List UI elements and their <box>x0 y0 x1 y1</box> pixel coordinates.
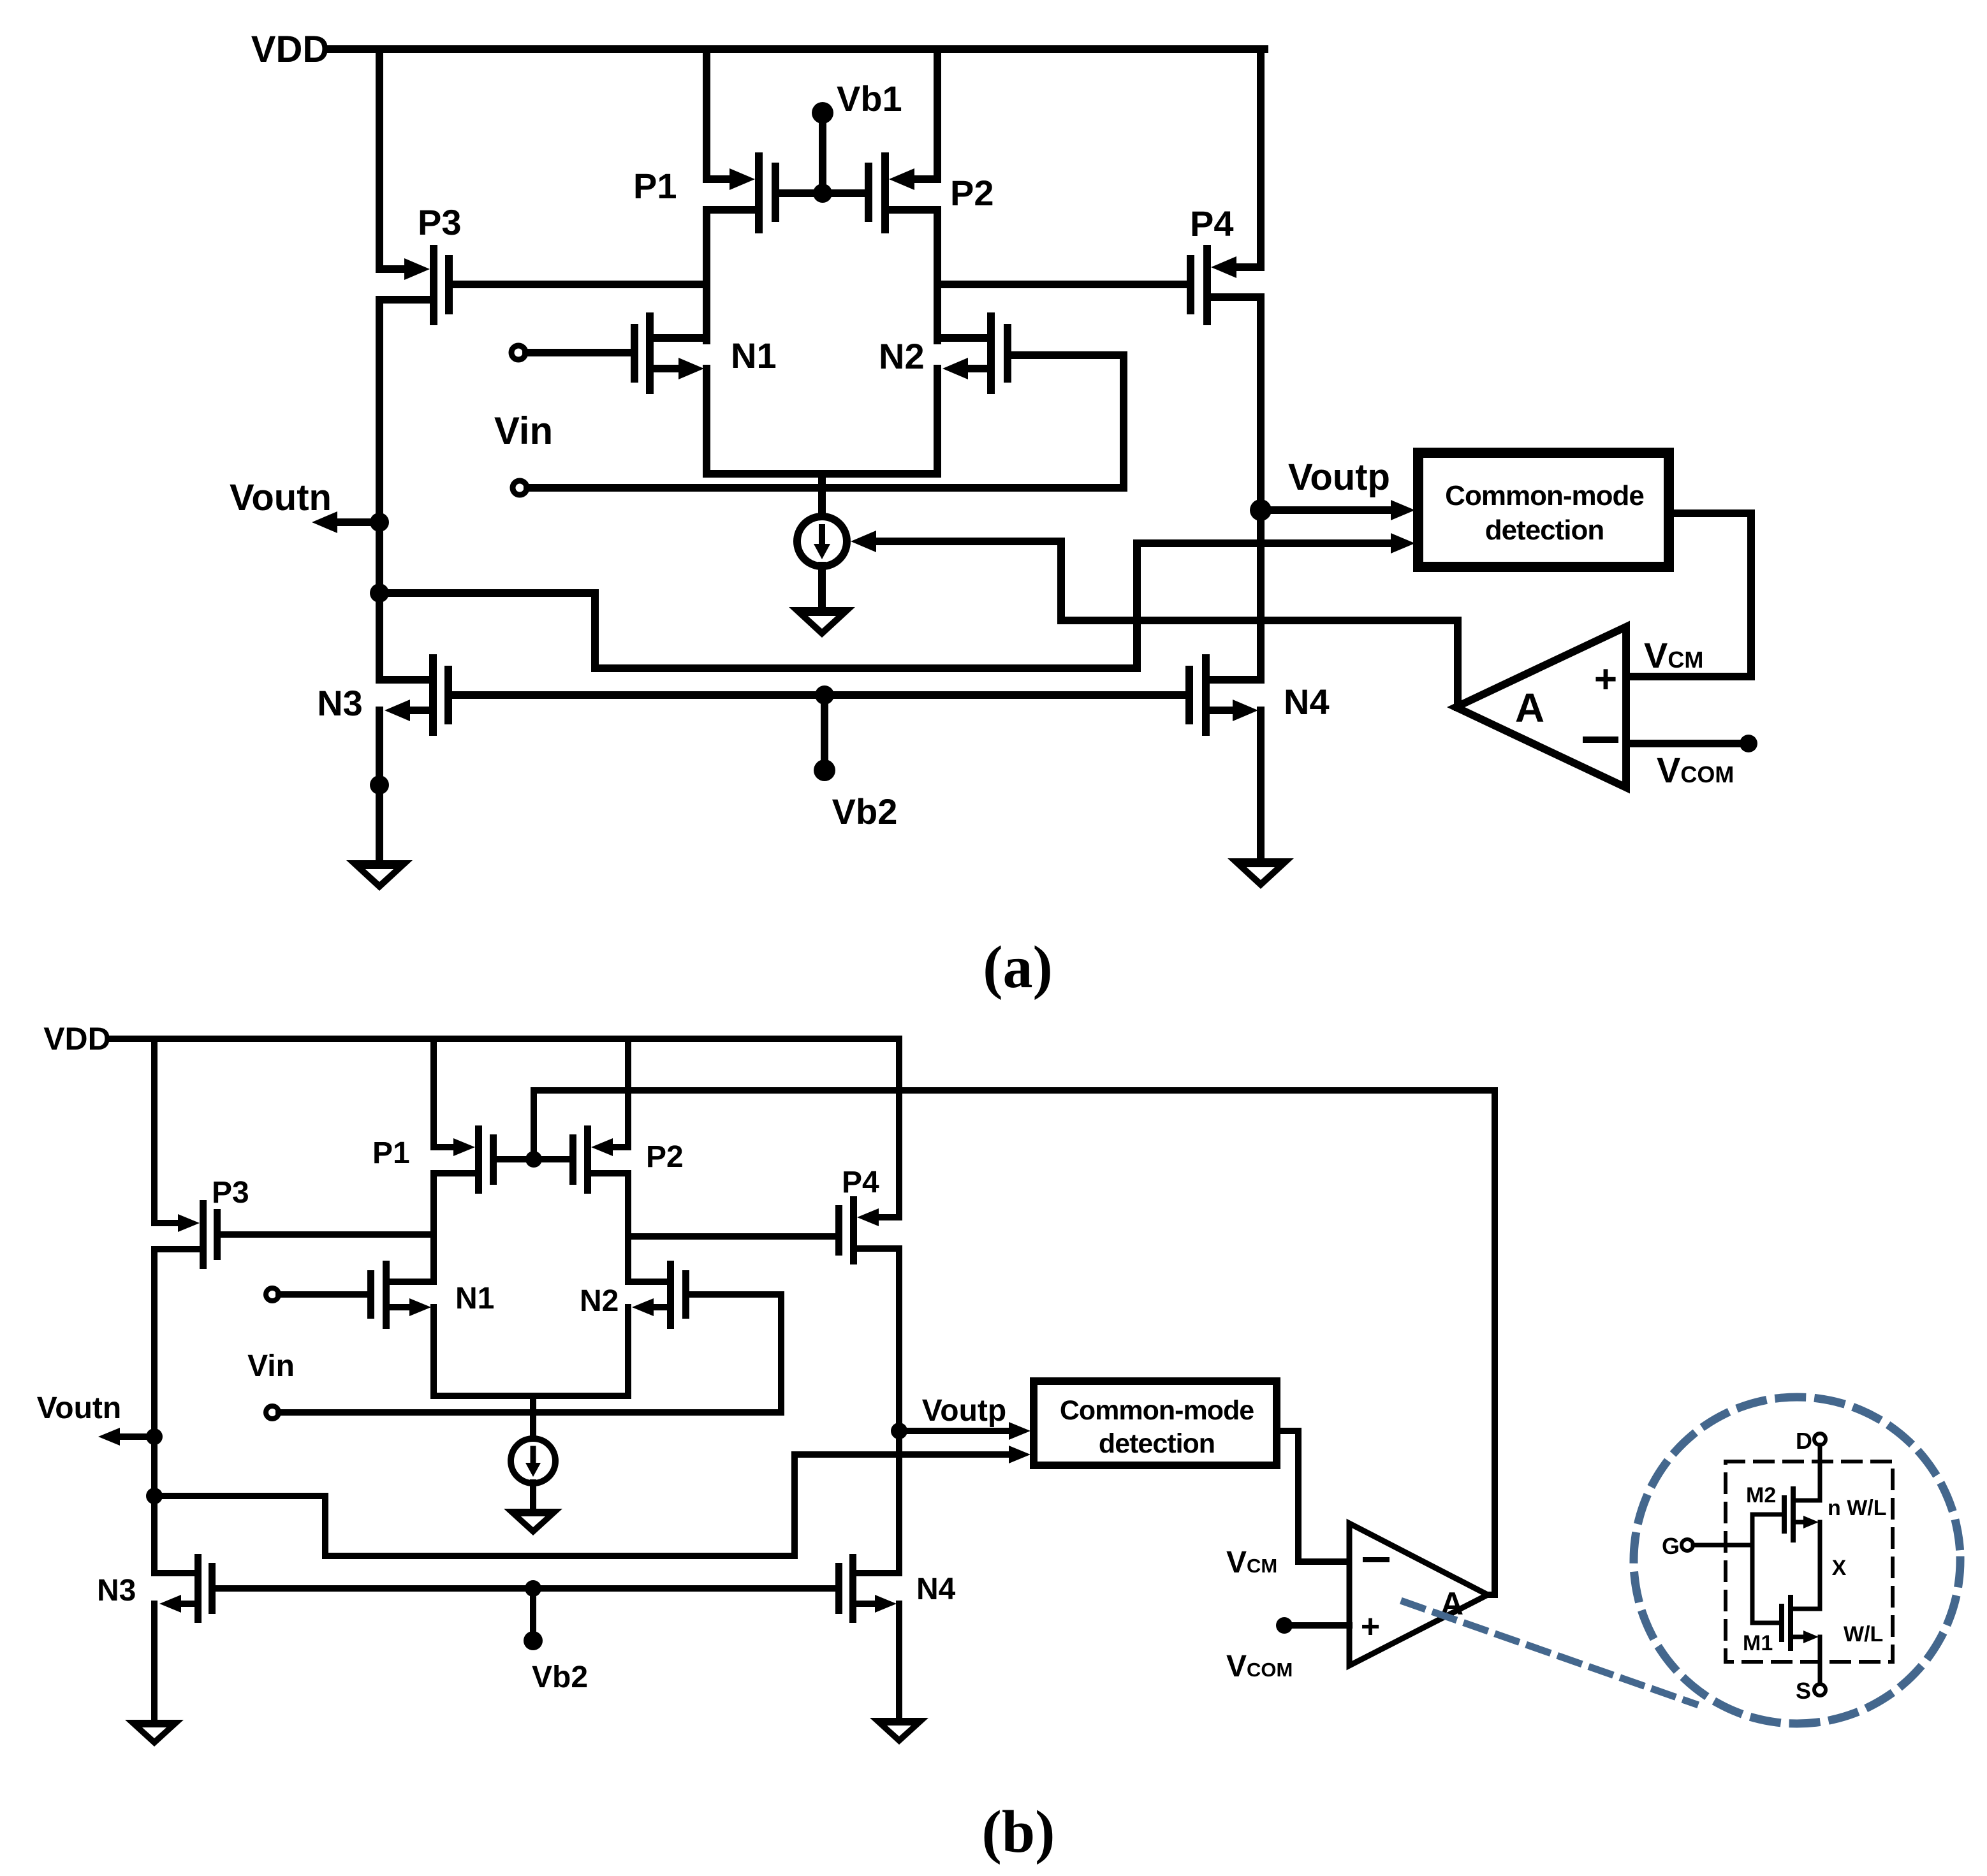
wire VDD drop to P3 source <box>376 49 383 269</box>
wire VDD drop to P2 source <box>934 49 941 179</box>
wire N2 gate lead <box>1011 351 1124 359</box>
transistor P3 (b) <box>154 1200 221 1269</box>
svg-text:Voutn: Voutn <box>37 1391 121 1425</box>
svg-text:VDD: VDD <box>43 1021 111 1057</box>
transistor P1 (b) <box>434 1125 497 1194</box>
wire Vb1 stub <box>819 122 826 193</box>
wire Vin+ to N1 gate (b) <box>279 1291 367 1298</box>
wire N1 source down to tail (b) <box>430 1307 437 1396</box>
op-amp A (a) <box>1456 627 1626 788</box>
svg-text:N3: N3 <box>97 1574 136 1608</box>
svg-text:(a): (a) <box>983 934 1053 1000</box>
current source I1 (b) <box>511 1439 555 1483</box>
svg-text:G: G <box>1662 1533 1680 1559</box>
wire D lead <box>1818 1445 1822 1500</box>
arrowhead Voutp into box (b) <box>1009 1422 1030 1440</box>
svg-text:P3: P3 <box>418 202 462 242</box>
transistor N4 (b) <box>835 1554 899 1623</box>
svg-text:Vb2: Vb2 <box>532 1660 588 1694</box>
terminal Vcom dot <box>1740 735 1757 752</box>
svg-text:Voutp: Voutp <box>922 1394 1006 1428</box>
svg-text:Vin: Vin <box>247 1349 295 1383</box>
node Vb2 junction dot <box>815 685 834 705</box>
transistor N3 (b) <box>154 1554 216 1623</box>
transistor N2 <box>937 312 1011 394</box>
svg-text:A: A <box>1515 685 1544 731</box>
wire Vin- line <box>527 484 1124 492</box>
svg-text:N1: N1 <box>455 1282 494 1315</box>
wire Voutn sense line to box (b) <box>154 1455 1013 1556</box>
wire opamp - input to Vcom <box>1630 740 1741 747</box>
wire P1-P2 gate line <box>779 189 865 197</box>
transistor N1 <box>631 312 707 474</box>
node Voutp junction dot (b) <box>891 1423 907 1439</box>
wire Voutp into box (b) <box>907 1428 1013 1434</box>
transistor M2 <box>1782 1486 1820 1543</box>
node Voutn sense branch dot (b) <box>146 1488 163 1504</box>
wire VDD drop to P1 source (b) <box>430 1039 437 1147</box>
svg-text:P1: P1 <box>633 166 677 206</box>
terminal D circle <box>1814 1433 1826 1445</box>
wire Vin+ to N1 gate <box>526 349 631 356</box>
svg-text:P2: P2 <box>950 173 994 213</box>
wire P1 drain to N1 drain (b) <box>430 1173 437 1282</box>
svg-text:Voutn: Voutn <box>230 477 332 518</box>
svg-text:X: X <box>1832 1556 1847 1580</box>
svg-text:N2: N2 <box>879 336 925 376</box>
wire N2 gate riser <box>1120 355 1127 488</box>
transistor P4 (b) <box>835 1196 899 1264</box>
terminal Vin+ circle (b) <box>266 1288 279 1301</box>
ground N3 (b) <box>125 1720 184 1747</box>
wire VDD drop to P2 source (b) <box>625 1039 631 1147</box>
wire N3 source to ground (b) <box>151 1604 158 1720</box>
node Vb2 junction dot (b) <box>525 1580 541 1597</box>
transistor M1 <box>1779 1595 1820 1651</box>
wire N2 source down to tail <box>934 369 941 474</box>
wire tail line N1-N2 <box>707 470 937 478</box>
wire CMFB control from opamp output <box>872 541 1458 707</box>
wire P3 gate to P1/N1 drain node <box>453 281 707 288</box>
ground N3 <box>346 860 413 891</box>
svg-text:D: D <box>1796 1428 1812 1454</box>
svg-text:+: + <box>1361 1608 1380 1645</box>
transistor P4 <box>1187 245 1261 325</box>
svg-text:S: S <box>1796 1678 1811 1704</box>
wire N1 source down to tail <box>703 369 710 474</box>
wire box output to opamp + input <box>1630 513 1751 677</box>
inset dashed box composite transistor <box>1726 1462 1893 1662</box>
node dot on N3 ground path <box>370 775 389 795</box>
svg-text:M1: M1 <box>1743 1631 1773 1655</box>
wire Voutn vertical (P3 drain to N3 drain) <box>376 300 383 680</box>
wire tail drop to current source <box>818 474 826 518</box>
svg-text:N2: N2 <box>580 1284 619 1318</box>
svg-text:Common-mode: Common-mode <box>1060 1395 1254 1426</box>
wire P2 drain to N2 drain <box>934 210 941 341</box>
wire tail drop to current source (b) <box>530 1396 536 1439</box>
svg-text:detection: detection <box>1485 515 1604 546</box>
transistor P2 (b) <box>569 1125 628 1194</box>
wire P1-P2 gate line (b) <box>497 1156 569 1162</box>
wire P2 drain to N2 drain (b) <box>625 1173 631 1282</box>
wire G lead and gate riser <box>1693 1514 1782 1623</box>
ground tail (b) <box>504 1509 562 1535</box>
transistor N2 (b) <box>628 1261 689 1329</box>
wire box output to opamp - input (b) <box>1280 1431 1349 1562</box>
wire N4 source to ground <box>1257 710 1265 858</box>
wire P4 gate to P2/N2 drain node <box>937 281 1187 288</box>
terminal Voutn output arrow (b) <box>98 1428 154 1446</box>
transistor N1 (b) <box>367 1261 434 1329</box>
wire Voutp vertical (P4 drain to N4 drain) <box>1257 297 1265 680</box>
wire N3-N4 gate line (b) <box>216 1585 835 1592</box>
node X wire M2 source to M1 drain <box>1818 1522 1822 1609</box>
wire opamp output stub (b) <box>1488 1592 1495 1598</box>
ground tail <box>789 607 855 638</box>
wire P3 gate to P1/N1 drain node (b) <box>221 1231 434 1238</box>
arrowhead CMFB control into current source <box>851 531 876 552</box>
block common-mode detection (b) <box>1034 1381 1277 1465</box>
transistor P2 <box>865 152 937 233</box>
svg-text:(b): (b) <box>982 1799 1055 1865</box>
leader dashed line to inset <box>1404 1602 1695 1704</box>
wire Voutn vertical (b) <box>151 1249 158 1573</box>
wire VDD drop to P1 source <box>703 49 710 179</box>
node Voutn junction dot <box>370 513 389 532</box>
terminal G circle <box>1682 1539 1693 1551</box>
svg-text:N3: N3 <box>317 683 363 723</box>
svg-text:Voutp: Voutp <box>1288 457 1390 498</box>
svg-text:W/L: W/L <box>1844 1622 1883 1646</box>
wire VDD rail (b) <box>112 1036 899 1042</box>
svg-text:Vin: Vin <box>494 409 553 452</box>
svg-text:P4: P4 <box>1190 203 1234 244</box>
wire Vcom to opamp + input (b) <box>1292 1622 1349 1629</box>
wire current source to ground <box>818 566 826 607</box>
node Voutn junction dot (b) <box>146 1428 163 1445</box>
node P1/P2 gate dot (b) <box>525 1151 542 1168</box>
svg-text:P1: P1 <box>372 1136 410 1170</box>
wire N3 source to ground <box>376 710 383 860</box>
wire Vb2 stub <box>821 695 828 761</box>
wire S lead <box>1818 1637 1822 1684</box>
wire N2 source down to tail (b) <box>625 1307 631 1396</box>
wire VDD drop to P4 source <box>1257 49 1265 267</box>
wire Vb2 stub (b) <box>530 1588 536 1633</box>
transistor P1 <box>707 152 779 233</box>
terminal Vcom dot (b) <box>1276 1617 1293 1634</box>
op-amp A (b) <box>1349 1523 1488 1666</box>
wire VDD rail (a) <box>330 45 1265 53</box>
wire P4 gate to P2/N2 drain node (b) <box>628 1233 835 1240</box>
transistor N4 <box>1185 654 1261 736</box>
svg-text:Vb2: Vb2 <box>832 791 898 832</box>
terminal Vin- circle (b) <box>266 1406 279 1419</box>
terminal Vin+ circle <box>511 346 525 360</box>
svg-text:Common-mode: Common-mode <box>1445 480 1644 511</box>
block common-mode detection (a) <box>1418 453 1669 567</box>
wire Voutp into box <box>1269 506 1394 514</box>
svg-text:n W/L: n W/L <box>1828 1496 1887 1520</box>
svg-text:M2: M2 <box>1746 1483 1776 1507</box>
svg-text:Vb1: Vb1 <box>837 78 902 119</box>
node Voutn sense branch dot <box>370 583 389 603</box>
arrowhead Voutn sense into box (b) <box>1009 1446 1030 1463</box>
svg-text:P3: P3 <box>212 1176 249 1210</box>
terminal Vb2 dot (b) <box>524 1631 543 1650</box>
terminal Voutn output arrow <box>312 511 379 533</box>
svg-text:N4: N4 <box>916 1572 956 1606</box>
svg-text:P2: P2 <box>646 1140 684 1174</box>
svg-text:N4: N4 <box>1284 682 1330 722</box>
svg-text:N1: N1 <box>731 335 777 376</box>
wire N3-N4 gate line <box>452 691 1185 699</box>
svg-text:detection: detection <box>1099 1428 1215 1459</box>
node Vb1 gate junction dot <box>813 184 832 203</box>
terminal Vin- circle <box>513 481 527 495</box>
wire Voutp vertical (b) <box>896 1249 902 1573</box>
wire CMFB feedback from opamp to P1/P2 gates (b) <box>534 1090 1495 1595</box>
inset dashed circle <box>1634 1397 1960 1724</box>
terminal Vb1 dot <box>812 102 833 124</box>
arrowhead Voutn sense into box <box>1391 533 1415 553</box>
transistor P3 <box>379 245 453 325</box>
svg-text:P4: P4 <box>842 1166 879 1199</box>
node Voutp junction dot <box>1250 499 1272 521</box>
ground N4 (b) <box>870 1718 928 1745</box>
wire VDD rail corner drop to P4 (b) <box>896 1039 902 1217</box>
transistor N3 <box>379 654 452 736</box>
svg-text:+: + <box>1594 657 1617 701</box>
wire N4 source to ground (b) <box>896 1604 902 1718</box>
current source I1 <box>797 517 847 566</box>
wire tail line (b) <box>434 1393 628 1399</box>
wire current source to ground (b) <box>530 1483 536 1509</box>
wire N2 gate lead and riser to Vin- (b) <box>689 1294 781 1412</box>
terminal Vb2 dot <box>814 759 835 781</box>
wire Voutn sense line to common-mode detection <box>379 543 1394 668</box>
svg-text:VDD: VDD <box>251 29 329 70</box>
wire P1 drain to N1 drain <box>703 210 710 341</box>
wire VDD drop to P3 source (b) <box>151 1039 158 1223</box>
ground N4 <box>1228 858 1294 889</box>
terminal S circle <box>1814 1684 1826 1696</box>
arrowhead Voutp into box <box>1391 500 1415 520</box>
wire Vin- line (b) <box>279 1409 781 1416</box>
